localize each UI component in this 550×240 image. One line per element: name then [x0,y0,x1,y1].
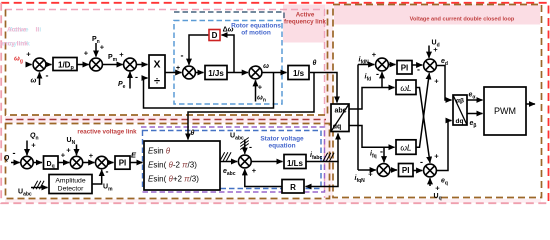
svg-text:+: + [433,45,438,54]
svg-text:+: + [26,50,31,59]
svg-text:+: + [372,50,377,59]
svg-text:+: + [434,77,439,86]
svg-text:+: + [434,152,439,161]
svg-text:X: X [153,59,160,71]
svg-text:+: + [31,141,36,150]
svg-text:ωL: ωL [400,143,412,153]
svg-text:Amplitude: Amplitude [55,178,85,185]
svg-text:+: + [66,146,71,155]
svg-text:Active li: Active li [7,27,39,34]
svg-text:+: + [368,170,373,179]
svg-text:R: R [290,183,296,192]
svg-text:D: D [212,31,218,40]
svg-text:ωL: ωL [400,83,412,93]
svg-text:1/s: 1/s [293,69,305,78]
svg-text:of motion: of motion [241,30,271,37]
svg-text:dq: dq [333,124,342,131]
svg-text:+: + [258,83,263,92]
svg-text:Voltage and current double clo: Voltage and current double closed loop [410,17,515,23]
svg-text:-: - [376,69,379,79]
svg-text:-: - [420,157,423,167]
svg-text:÷: ÷ [154,76,160,88]
svg-text:ω: ω [263,63,269,70]
svg-text:PI: PI [119,159,127,168]
svg-text:Q: Q [4,155,10,162]
svg-text:abc: abc [334,108,346,115]
svg-text:-: - [181,51,184,61]
svg-text:Esin( θ+2 π/3): Esin( θ+2 π/3) [148,175,199,184]
svg-text:-: - [13,148,16,158]
svg-text:dq: dq [456,118,464,125]
svg-text:θ: θ [191,130,195,137]
svg-text:+: + [435,184,440,193]
svg-text:reactive voltage link: reactive voltage link [77,129,137,136]
svg-text:1/Ls: 1/Ls [287,159,304,168]
svg-text:ω: ω [31,78,37,85]
svg-text:θ: θ [313,60,317,67]
svg-text:PWM: PWM [494,106,516,116]
svg-text:+: + [84,49,89,58]
svg-text:-: - [417,65,420,75]
svg-text:-: - [135,72,138,82]
svg-text:-: - [46,71,49,81]
svg-text:equation: equation [268,143,295,150]
svg-text:-: - [106,167,109,177]
svg-text:1/Js: 1/Js [208,69,224,78]
svg-text:αβ: αβ [456,97,464,104]
svg-text:Esin θ: Esin θ [148,147,171,156]
svg-text:Esin( θ-2 π/3): Esin( θ-2 π/3) [148,161,197,170]
svg-text:Stator voltage: Stator voltage [260,136,304,143]
svg-text:-: - [380,147,383,157]
svg-text:Detector: Detector [58,186,84,193]
svg-text:PI: PI [401,63,409,72]
svg-text:+: + [119,50,124,59]
svg-text:frequency link: frequency link [284,19,327,26]
svg-text:Δω: Δω [223,27,234,34]
svg-text:-: - [249,142,252,152]
svg-text:+: + [89,151,94,160]
svg-text:PI: PI [402,166,410,175]
svg-text:+: + [252,166,257,175]
svg-text:ency link: ency link [0,41,28,48]
svg-text:Rotor equations: Rotor equations [231,23,281,30]
svg-text:+: + [176,65,180,72]
svg-text:+: + [61,151,66,160]
svg-text:Active: Active [296,12,315,19]
svg-text:+: + [100,43,105,52]
